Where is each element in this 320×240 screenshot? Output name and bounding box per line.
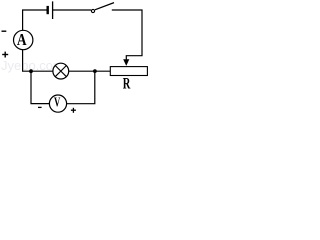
svg-text:V: V — [54, 95, 60, 110]
svg-text:A: A — [17, 30, 27, 49]
svg-text:R: R — [123, 75, 131, 92]
